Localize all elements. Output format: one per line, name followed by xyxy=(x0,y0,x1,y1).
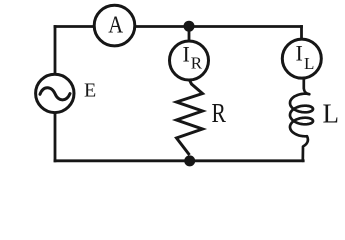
svg-text:E: E xyxy=(84,80,96,102)
svg-text:A: A xyxy=(108,11,123,38)
svg-text:R: R xyxy=(212,99,227,129)
svg-text:I: I xyxy=(296,40,303,65)
svg-text:L: L xyxy=(304,54,314,73)
svg-text:I: I xyxy=(183,41,190,66)
svg-text:L: L xyxy=(323,99,340,129)
svg-text:R: R xyxy=(191,54,203,73)
